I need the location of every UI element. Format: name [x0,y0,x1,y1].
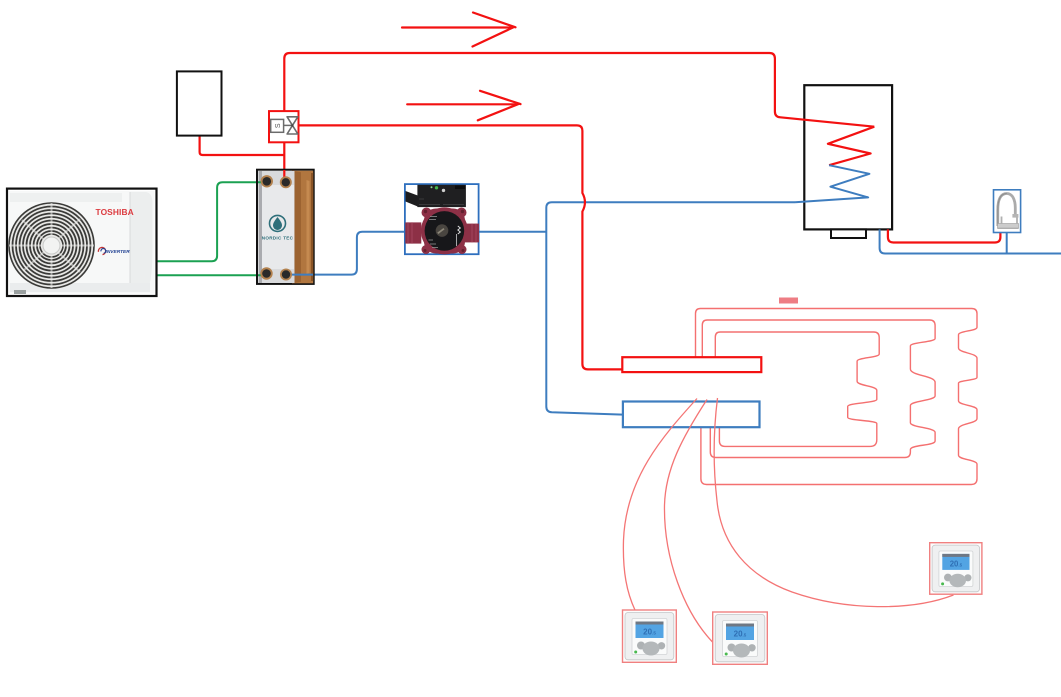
svg-text:S: S [275,123,282,128]
floor loop middle circuit [702,320,935,458]
tank coil cold zigzag [795,165,869,202]
plate heat exchanger (Nordic Tec) [257,170,314,284]
wire cold return (tank to riser) [546,202,795,414]
legend dash (pink) [779,298,798,304]
wire expansion vessel connection [200,136,285,155]
wire pump discharge (pump to riser junction) [479,231,547,233]
wire thermostat 2 [664,400,712,643]
pump volute body [405,207,479,254]
svg-text:TOSHIBA: TOSHIBA [96,207,134,217]
wire tank hot tap (tank to faucet) [888,229,1001,242]
floor loop inner circuit [715,332,879,446]
wire faucet cold drop [1006,233,1008,254]
thermostat 2 [713,612,768,664]
wire pump suction (heat exchanger to pump) [303,232,405,275]
wire cold feed (main to tank and faucet) [880,229,1061,253]
wire thermostat 1 [623,399,697,611]
diverter valve S [269,111,299,142]
faucet [994,190,1021,233]
wire stubs into ports [283,170,285,183]
circulation pump (Grundfos) [405,184,479,254]
heat pump outdoor unit (Toshiba) [7,189,157,296]
expansion vessel [177,71,222,135]
arrow A2 (second flow arrow) [407,91,520,121]
svg-text:INVERTER: INVERTER [106,249,131,255]
hot water tank [804,85,892,238]
svg-text:NORDIC TEC: NORDIC TEC [262,236,294,241]
thermostat 3 [930,543,982,595]
wire heat exchanger hot out riser [283,142,285,183]
manifold supply (red) [622,357,761,372]
wire refrigerant gas (heat pump to exchanger top) [157,182,263,261]
wire thermostat 3 [714,398,953,607]
wire valve to floor circuit with hop [299,125,623,369]
manifold return (blue) [623,402,760,428]
wire refrigerant liquid (heat pump to exchanger bottom) [157,274,263,276]
tank coil hot zigzag [828,127,874,166]
floor loop outer circuit [696,309,978,485]
thermostat 1 [623,610,677,662]
wire hot supply top (valve to tank) [284,53,874,127]
arrow A1 (top flow arrow) [402,13,516,47]
